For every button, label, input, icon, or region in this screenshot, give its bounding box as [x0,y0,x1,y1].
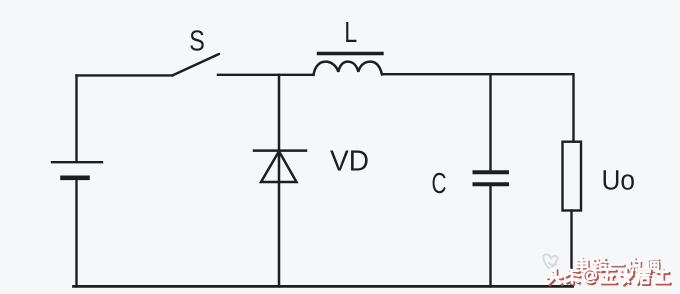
switch S blade [173,54,220,75]
watermark logo scribble [543,254,558,269]
svg-text:C: C [432,168,447,200]
wire: left vertical lower (battery - down) [75,180,77,287]
svg-text:VD: VD [330,145,369,177]
capacitor C bottom plate [475,182,508,186]
inductor L coil [314,62,383,75]
inductor L core bar [319,52,383,55]
diode VD triangle [261,151,297,182]
watermark text line 1: 电路一点通 (red with white emboss) [578,259,661,272]
wire: resistor bottom to return wire [570,211,572,287]
wire: switch fixed contact to inductor [218,74,314,76]
wire: left vertical upper (to battery) [75,75,77,161]
battery short plate (-) [63,176,88,181]
resistor Uo body [563,142,582,211]
wire: inductor to top-right corner, down to resistor top [382,74,574,142]
svg-text:S: S [189,26,205,58]
watermark text line 2: 头条@五岁居士 (red with white emboss) [549,270,671,285]
wire: top-left horizontal (battery + to switch pivot) [77,74,173,76]
diode VD cathode bar [254,149,306,152]
wire: capacitor branch upper [489,74,491,170]
wire: capacitor branch lower [489,186,491,286]
svg-text:Uo: Uo [602,165,636,196]
capacitor C top plate [475,170,508,174]
battery long plate (+) [52,161,102,163]
wire: bottom return [74,285,573,288]
svg-text:L: L [344,17,357,49]
wire: diode branch vertical [278,75,281,287]
